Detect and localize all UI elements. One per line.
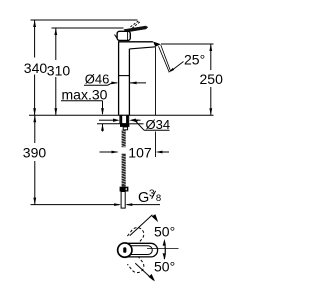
svg-text:Ø46: Ø46 [85, 72, 110, 87]
svg-text:Ø34: Ø34 [146, 117, 171, 132]
svg-text:max.30: max.30 [62, 86, 108, 102]
svg-text:25°: 25° [184, 52, 205, 68]
svg-text:107: 107 [128, 145, 152, 161]
svg-text:50°: 50° [154, 259, 175, 275]
svg-text:G: G [138, 190, 149, 206]
svg-text:50°: 50° [154, 224, 175, 240]
svg-text:340: 340 [24, 60, 48, 76]
svg-text:390: 390 [23, 145, 47, 161]
svg-text:250: 250 [200, 71, 224, 87]
svg-text:8: 8 [156, 193, 161, 204]
svg-text:310: 310 [47, 63, 71, 79]
